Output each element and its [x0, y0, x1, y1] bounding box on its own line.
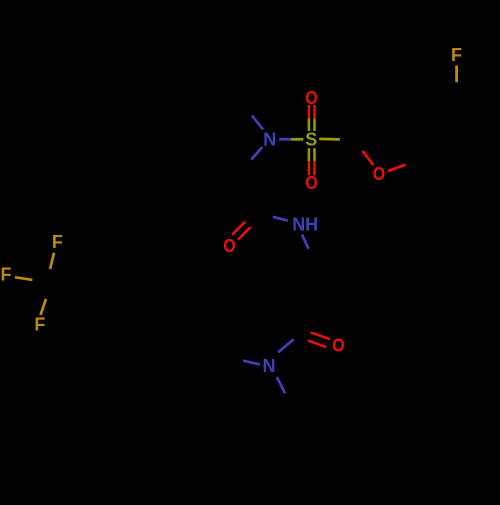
bond F-C cf3 left (gold half) [15, 277, 33, 280]
bond N-C down-left (blue half) [251, 147, 262, 160]
bond C=O lactam line 2 (red half) [308, 341, 326, 348]
svg-text:O: O [223, 236, 235, 256]
bond S=O top line 2 [313, 105, 316, 119]
svg-text:O: O [373, 164, 385, 184]
bond N-C up-left (blue half) [252, 116, 263, 130]
bond S-C2 furan (olive half) [319, 138, 340, 141]
svg-text:O: O [305, 173, 317, 193]
svg-text:F: F [1, 265, 12, 285]
bond N-S (blue half) [279, 138, 291, 141]
bond F-C cf3 bottom (gold half) [41, 299, 47, 315]
bond C-NH (blue half) [273, 217, 288, 221]
svg-text:NH: NH [292, 215, 318, 235]
bond N-S (olive half) [291, 138, 304, 141]
bond S=O top line 1 [308, 105, 311, 119]
bond C=O amide line 2 (red half) [238, 227, 251, 240]
svg-text:F: F [34, 315, 45, 335]
bond O-C7a furan (red half) [388, 165, 405, 171]
bond C=O lactam line 1 (red half) [311, 332, 331, 339]
bond N-C carbonyl (blue half) [278, 339, 294, 352]
svg-text:N: N [263, 130, 276, 150]
bond N-CH3 (blue half) [243, 361, 260, 365]
bond NH-CH2 (blue half) [302, 235, 309, 249]
svg-text:F: F [52, 232, 63, 252]
bond N-C down (blue half) [277, 377, 285, 393]
svg-text:F: F [451, 45, 462, 65]
svg-text:N: N [263, 356, 276, 376]
bond F-C aryl (gold half) [455, 66, 458, 83]
bond F-C cf3 top (gold half) [50, 253, 54, 269]
svg-text:O: O [332, 335, 344, 355]
bond O-C2 furan (red half) [363, 151, 374, 165]
bond C=O amide line 1 (red half) [232, 222, 245, 235]
bond S=O bottom line 2 [313, 148, 316, 161]
bond S=O bottom line 1 [308, 148, 311, 161]
svg-text:O: O [305, 88, 317, 108]
svg-text:S: S [305, 130, 317, 150]
